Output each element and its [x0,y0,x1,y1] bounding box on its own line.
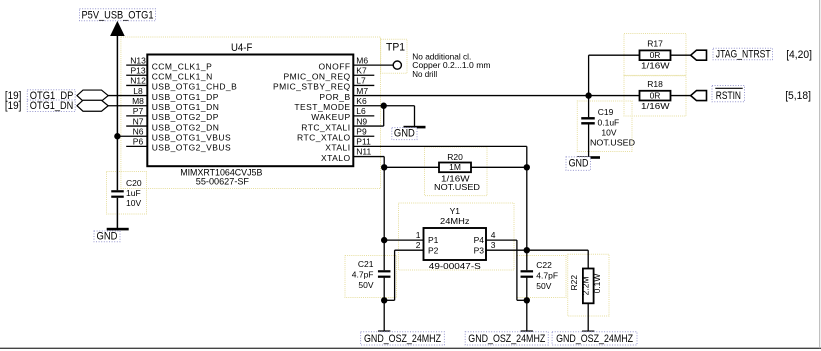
svg-text:GND_OSZ_24MHZ: GND_OSZ_24MHZ [556,333,633,345]
svg-text:N11: N11 [356,147,371,157]
svg-text:N9: N9 [356,116,367,126]
svg-text:2: 2 [416,240,421,250]
svg-text:C19: C19 [598,107,614,117]
svg-text:C22: C22 [536,260,552,270]
svg-text:4.7pF: 4.7pF [536,270,558,280]
svg-text:PMIC_ON_REQ: PMIC_ON_REQ [283,72,350,82]
svg-text:WAKEUP: WAKEUP [311,112,350,122]
svg-text:2.2M: 2.2M [581,276,591,295]
svg-text:0.1W: 0.1W [592,274,602,294]
svg-text:L6: L6 [356,106,366,116]
svg-text:L8: L8 [133,86,143,96]
svg-text:RTC_XTALI: RTC_XTALI [301,122,350,132]
svg-text:R17: R17 [647,38,663,48]
svg-text:TEST_MODE: TEST_MODE [294,102,350,112]
svg-text:4: 4 [491,230,496,240]
svg-text:[4,20]: [4,20] [786,49,812,61]
svg-text:P5V_USB_OTG1: P5V_USB_OTG1 [82,10,154,22]
svg-text:CCM_CLK1_N: CCM_CLK1_N [152,72,213,82]
svg-text:OTG1_DN: OTG1_DN [30,100,74,112]
svg-text:P1: P1 [428,235,439,245]
svg-text:N6: N6 [133,126,144,136]
svg-text:GND_OSZ_24MHZ: GND_OSZ_24MHZ [468,333,545,345]
svg-text:1: 1 [416,230,421,240]
svg-text:K6: K6 [356,96,367,106]
svg-text:No drill: No drill [412,69,437,79]
svg-text:XTALO: XTALO [321,153,351,163]
svg-text:USB_OTG2_DN: USB_OTG2_DN [152,122,220,132]
svg-text:JTAG_NTRST: JTAG_NTRST [716,48,771,60]
svg-text:1uF: 1uF [126,188,141,198]
svg-text:GND_OSZ_24MHZ: GND_OSZ_24MHZ [364,333,441,345]
svg-text:RSTIN: RSTIN [716,90,741,102]
svg-text:U4-F: U4-F [231,42,253,54]
svg-text:USB_OTG2_VBUS: USB_OTG2_VBUS [152,143,231,153]
svg-text:GND: GND [97,231,118,243]
svg-text:NOT.USED: NOT.USED [434,182,480,192]
svg-text:P3: P3 [474,245,485,255]
svg-text:POR_B: POR_B [319,92,350,102]
svg-text:CCM_CLK1_P: CCM_CLK1_P [152,61,213,71]
svg-text:50V: 50V [536,281,551,291]
svg-text:1/16W: 1/16W [641,101,670,111]
svg-text:0.1uF: 0.1uF [598,117,620,127]
svg-text:50V: 50V [358,280,373,290]
svg-text:K7: K7 [356,65,367,75]
svg-text:24MHz: 24MHz [440,216,470,226]
svg-text:PMIC_STBY_REQ: PMIC_STBY_REQ [273,82,351,92]
svg-text:[19]: [19] [5,100,22,112]
svg-text:NOT.USED: NOT.USED [590,138,635,148]
svg-text:GND: GND [394,128,415,140]
svg-text:1/16W: 1/16W [641,60,670,70]
svg-text:P9: P9 [356,126,367,136]
svg-text:Y1: Y1 [450,206,461,216]
svg-text:R18: R18 [647,79,663,89]
svg-text:USB_OTG1_VBUS: USB_OTG1_VBUS [152,133,231,143]
svg-text:10V: 10V [126,198,141,208]
svg-text:USB_OTG1_CHD_B: USB_OTG1_CHD_B [152,82,238,92]
svg-text:R20: R20 [447,152,463,162]
svg-text:P13: P13 [130,65,145,75]
svg-text:R22: R22 [569,275,579,291]
svg-text:M6: M6 [356,55,368,65]
svg-text:L7: L7 [356,76,366,86]
svg-text:10V: 10V [601,128,616,138]
svg-text:C20: C20 [126,178,142,188]
svg-text:RTC_XTALO: RTC_XTALO [297,133,351,143]
svg-text:N7: N7 [133,116,144,126]
svg-text:N12: N12 [130,76,146,86]
svg-text:M7: M7 [356,86,368,96]
svg-text:P2: P2 [428,245,439,255]
svg-text:TP1: TP1 [386,42,405,54]
svg-text:GND: GND [569,157,589,169]
svg-text:USB_OTG1_DN: USB_OTG1_DN [152,102,220,112]
svg-text:USB_OTG1_DP: USB_OTG1_DP [152,92,219,102]
svg-text:ONOFF: ONOFF [318,61,350,71]
svg-text:0R: 0R [650,90,661,100]
svg-text:P11: P11 [356,137,371,147]
svg-text:C21: C21 [358,259,374,269]
svg-text:P7: P7 [133,106,144,116]
svg-text:XTALI: XTALI [325,143,350,153]
svg-text:1M: 1M [449,162,461,172]
svg-text:P6: P6 [133,137,144,147]
svg-text:55-00627-SF: 55-00627-SF [196,176,249,187]
svg-text:0R: 0R [650,50,661,60]
svg-text:3: 3 [491,240,496,250]
svg-text:[5,18]: [5,18] [785,90,811,102]
svg-text:49-00047-S: 49-00047-S [429,261,481,271]
svg-text:N13: N13 [130,55,146,65]
svg-text:4.7pF: 4.7pF [352,269,374,279]
svg-text:P4: P4 [474,235,485,245]
svg-text:USB_OTG2_DP: USB_OTG2_DP [152,112,219,122]
svg-text:M8: M8 [132,96,144,106]
